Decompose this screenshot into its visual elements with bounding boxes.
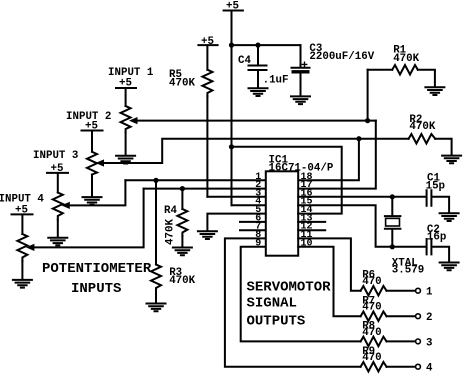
resistor R3	[151, 180, 161, 302]
svg-text:4: 4	[426, 362, 433, 374]
wire: pin16 to crystal and C1	[298, 196, 425, 198]
ground (R3)	[147, 304, 166, 312]
svg-text:2: 2	[426, 312, 432, 324]
wiper arrow pot3	[61, 202, 70, 209]
resistor R1	[368, 65, 435, 87]
svg-text:470: 470	[362, 302, 381, 314]
ground (C3)	[291, 96, 310, 104]
svg-text:1: 1	[426, 286, 433, 298]
potentiometer input 3	[47, 173, 125, 237]
potentiometer input 2	[82, 131, 359, 197]
svg-text:470: 470	[362, 327, 381, 339]
ground (R4)	[173, 248, 192, 256]
svg-text:POTENTIOMETER: POTENTIOMETER	[42, 261, 152, 277]
wiper arrow pot2	[96, 159, 105, 166]
svg-text:470K: 470K	[393, 53, 419, 65]
ground (pot2)	[83, 197, 102, 205]
wire: pin15 to crystal bottom	[298, 205, 425, 247]
ground (pot4)	[13, 280, 32, 288]
node: xtal top junction	[390, 194, 395, 199]
wire: pin4 line from +5 rail	[232, 204, 266, 206]
svg-text:OUTPUTS: OUTPUTS	[247, 314, 306, 330]
svg-text:9: 9	[255, 238, 261, 249]
node: R3 tap on pin1 line	[153, 178, 158, 183]
terminal output 2	[416, 314, 421, 319]
node: R4 tap on pin2 line	[180, 186, 185, 191]
ground (C4)	[249, 88, 268, 96]
wire: pot2 line down to pin18	[298, 139, 359, 181]
svg-text:.1uF: .1uF	[263, 74, 289, 86]
wire: pin2 line	[144, 188, 266, 190]
svg-text:C4: C4	[238, 55, 251, 67]
ground (pin5)	[198, 231, 217, 239]
node: xtal bottom junction	[390, 244, 395, 249]
wire: R1 to pot1 line	[367, 70, 369, 121]
wire: pin14 Vdd from +5 rail	[232, 147, 342, 214]
capacitor C4	[249, 45, 267, 87]
capacitor C1	[427, 190, 450, 212]
svg-text:SERVOMOTOR: SERVOMOTOR	[247, 279, 332, 295]
svg-text:3.579: 3.579	[392, 264, 424, 276]
node A: +5/C4/C3 junction	[229, 43, 234, 48]
resistor R9	[361, 362, 416, 372]
svg-text:+5: +5	[201, 36, 214, 48]
wire: pin7 stub	[240, 229, 266, 231]
terminal output 3	[416, 339, 421, 344]
power +5 top rail	[224, 11, 243, 206]
svg-text:15p: 15p	[426, 181, 445, 193]
wire: pot1 line down to pin17	[298, 121, 376, 189]
resistor R4	[177, 189, 187, 247]
wire: pin8 to R9	[225, 238, 361, 366]
node: R2/pot2 junction	[356, 136, 361, 141]
wire: pin3 line	[207, 196, 265, 198]
resistor R6	[361, 286, 416, 296]
ground (R1)	[425, 87, 444, 95]
wire: top cap feed line	[232, 44, 301, 46]
svg-text:470K: 470K	[409, 121, 435, 133]
svg-text:SIGNAL: SIGNAL	[247, 296, 297, 312]
svg-text:470K: 470K	[169, 275, 195, 287]
node: R1/pot1 junction	[365, 118, 370, 123]
svg-text:16p: 16p	[427, 232, 446, 244]
wire: pin5 to ground	[207, 214, 265, 231]
resistor R5	[198, 45, 217, 197]
svg-text:470: 470	[362, 352, 381, 364]
terminal output 1	[416, 288, 421, 293]
ground (pot1)	[116, 156, 135, 164]
svg-text:+5: +5	[85, 121, 98, 133]
wire: pin1 line	[125, 179, 265, 181]
resistor R2	[359, 134, 452, 155]
resistor R7	[361, 312, 416, 322]
svg-text:2200uF/16V: 2200uF/16V	[309, 51, 374, 63]
ground (R2)	[442, 156, 461, 164]
ground (C2)	[440, 263, 459, 271]
svg-text:+5: +5	[15, 204, 28, 216]
svg-text:10: 10	[301, 238, 313, 249]
node B: C4 tap	[255, 43, 260, 48]
capacitor C3 (electrolytic)	[292, 45, 310, 96]
ground (pot3)	[48, 238, 67, 246]
svg-text:R4: R4	[164, 205, 177, 217]
potentiometer input 1	[116, 88, 376, 155]
svg-text:+5: +5	[119, 78, 132, 90]
wire: pin12 stub	[298, 229, 325, 231]
resistor R8	[361, 337, 416, 347]
svg-text:3: 3	[426, 337, 432, 349]
svg-text:+5: +5	[226, 0, 239, 12]
potentiometer input 4	[12, 189, 144, 280]
ground (C1)	[440, 213, 459, 221]
crystal XTAL	[385, 197, 401, 247]
svg-text:470K: 470K	[165, 219, 177, 245]
wiper arrow pot4	[26, 244, 35, 251]
wire: pin11 to R6	[298, 238, 360, 290]
capacitor C2	[427, 239, 450, 262]
wire: pin10 to R7	[298, 247, 360, 316]
svg-text:470K: 470K	[169, 77, 195, 89]
terminal output 4	[416, 364, 421, 369]
wiper arrow pot1	[129, 117, 138, 124]
svg-text:+5: +5	[51, 163, 64, 175]
IC U1 16C71 body	[266, 171, 298, 255]
svg-text:INPUT 3: INPUT 3	[33, 150, 78, 162]
wire: pin13 stub	[298, 221, 325, 223]
svg-text:INPUTS: INPUTS	[71, 281, 121, 297]
wire: pin6 stub	[240, 221, 266, 223]
wire: pin9 to R8	[241, 247, 361, 342]
node: +5 rail / pin14 junction	[229, 144, 234, 149]
svg-text:470: 470	[362, 276, 381, 288]
